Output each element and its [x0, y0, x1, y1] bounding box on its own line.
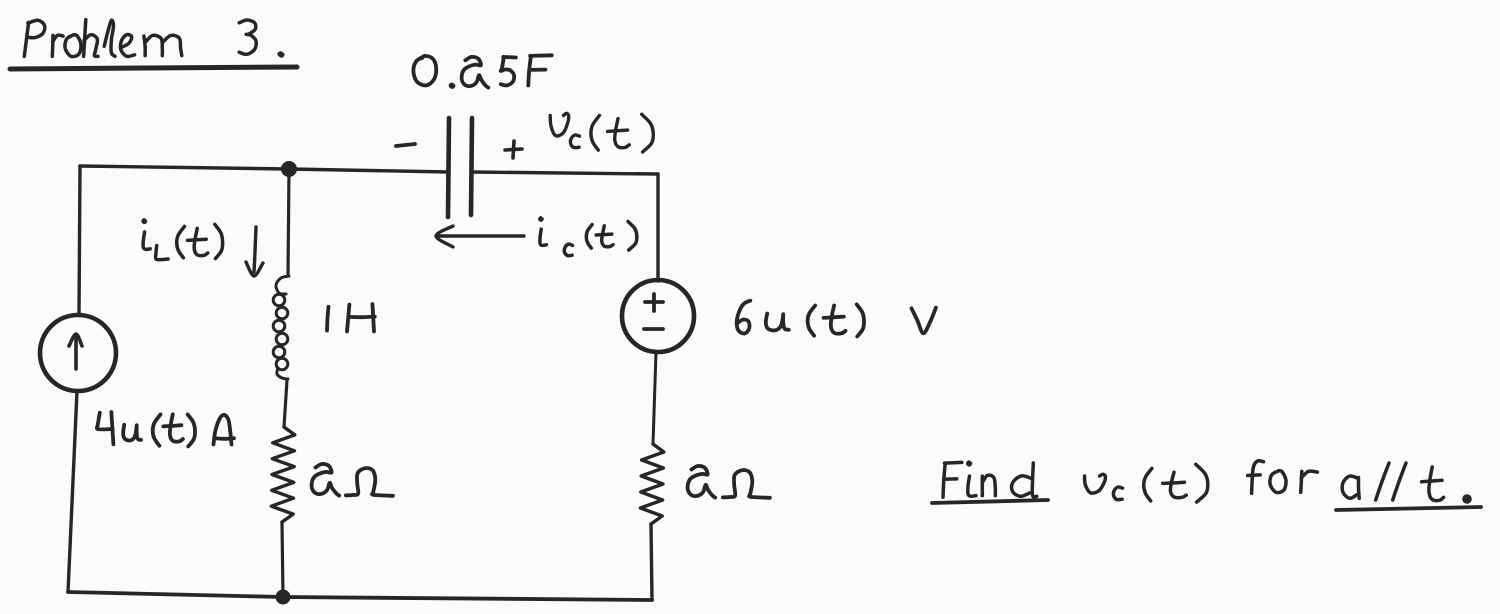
label "1H" inductor value L1	[327, 304, 375, 331]
label "4u(t) A" current source value	[97, 412, 234, 446]
wire voltage source to right resistor	[653, 352, 656, 444]
capacitor C1 0.25F left plate	[448, 118, 449, 217]
node A junction dot (top middle)	[281, 161, 297, 177]
resistor R2 2ohm zigzag (right)	[640, 444, 663, 524]
label "2 ohm" R2 value	[688, 466, 770, 498]
label "v_c(t)" capacitor voltage	[550, 113, 653, 152]
wire bottom-left (to node B)	[68, 592, 283, 597]
label "0.25F" capacitor value C1	[413, 55, 551, 87]
inductor L1 1H (coil)	[273, 276, 289, 379]
text "all t."	[1342, 463, 1472, 504]
wire inductor to left resistor	[284, 380, 287, 427]
arrow for inductor current i_L (pointing down)	[246, 227, 263, 276]
label "i_c(t)" capacitor current	[540, 218, 637, 256]
voltage source V1 (circle, plus minus) 6u(t) V	[622, 280, 694, 352]
wire node A to capacitor left plate	[289, 169, 449, 172]
text "v_c(t)" in question	[1085, 464, 1208, 502]
label "i_L(t)" inductor current	[143, 220, 223, 260]
wire left side below current source	[68, 391, 77, 592]
title underline	[10, 67, 297, 69]
wire top-left (current source to node A)	[80, 166, 289, 169]
capacitor C1 0.25F right plate	[471, 118, 472, 215]
wire right side down to voltage source	[656, 174, 659, 281]
wire capacitor right plate to top-right corner	[472, 172, 658, 174]
wire node A down to inductor	[288, 169, 289, 275]
arrow for capacitor current i_c (pointing left)	[436, 226, 524, 247]
wire left side down from top	[79, 166, 80, 315]
label "6u(t) V" voltage source value	[737, 301, 936, 337]
resistor R1 2ohm zigzag (left)	[271, 427, 295, 522]
wire bottom-right (node B to right corner)	[283, 597, 652, 600]
wire right resistor to bottom-right corner	[651, 524, 652, 600]
label "+" polarity right of C1	[505, 141, 522, 158]
wire left resistor to node B	[282, 522, 283, 597]
text "Find"	[943, 462, 1037, 497]
label "-" polarity left of C1	[396, 144, 415, 146]
node B junction dot (bottom middle)	[276, 590, 291, 605]
title "Problem 3."	[24, 20, 283, 57]
text "for"	[1248, 461, 1318, 494]
label "2 ohm" R1 value	[312, 464, 393, 496]
underline under "all t."	[1336, 507, 1481, 510]
underline under "Find"	[932, 500, 1048, 503]
current source I1 (circle, up arrow) 4u(t) A	[40, 315, 116, 391]
